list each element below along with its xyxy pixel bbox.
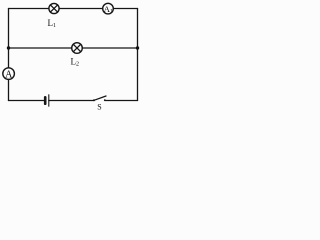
ammeter A [3,68,15,81]
node (left junction) [7,46,10,49]
svg-text:A: A [5,70,13,81]
wire [113,8,137,10]
switch S [93,96,106,112]
wire [82,47,137,49]
wire [59,8,103,10]
node (right junction) [136,46,139,49]
wire [105,100,138,102]
battery B [45,95,49,106]
wire [9,100,45,102]
wire [49,100,94,102]
wire [8,9,10,68]
svg-text:S: S [97,103,101,112]
svg-text:L1: L1 [48,18,57,29]
wire [137,9,139,101]
svg-text:L2: L2 [71,57,80,68]
ammeter A1 [103,3,114,15]
wire [9,47,72,49]
wire [9,8,49,10]
lamp L2 [71,43,83,68]
lamp L1 [48,3,60,29]
wire [8,79,10,100]
